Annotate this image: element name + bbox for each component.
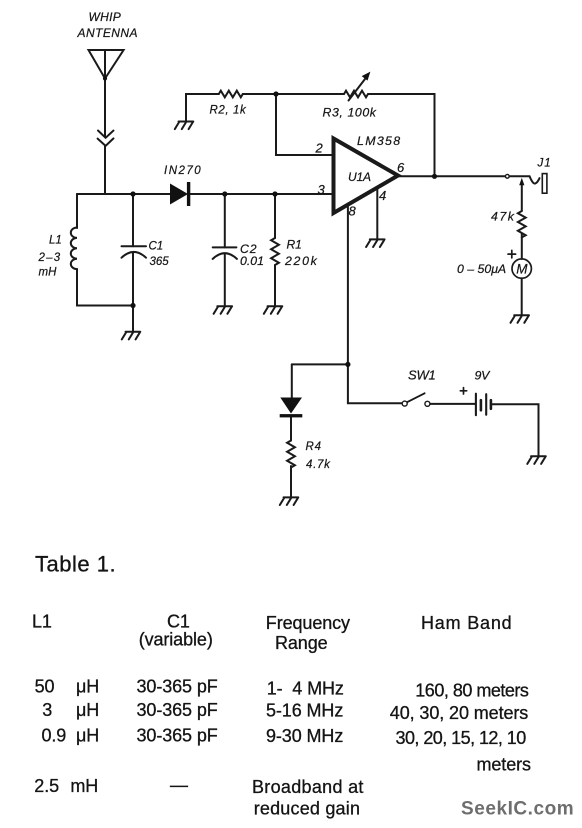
svg-text:ANTENNA: ANTENNA [77, 26, 139, 40]
svg-text:5-16 MHz: 5-16 MHz [266, 701, 343, 721]
svg-text:R3, 100k: R3, 100k [323, 106, 377, 120]
svg-text:R2, 1k: R2, 1k [210, 105, 247, 117]
svg-text:0.01: 0.01 [240, 254, 264, 268]
svg-text:meters: meters [477, 755, 532, 775]
svg-text:Table 1.: Table 1. [35, 552, 116, 577]
svg-text:50: 50 [35, 677, 55, 697]
svg-text:0 – 50μA: 0 – 50μA [457, 262, 506, 276]
svg-text:U1A: U1A [348, 170, 371, 184]
svg-text:47k: 47k [491, 210, 515, 224]
svg-text:6: 6 [397, 160, 405, 175]
svg-text:R4: R4 [306, 441, 322, 453]
svg-text:J1: J1 [537, 158, 552, 170]
svg-text:(variable): (variable) [139, 629, 213, 649]
svg-text:IN270: IN270 [164, 165, 202, 177]
svg-text:C1: C1 [149, 241, 164, 253]
svg-text:WHIP: WHIP [89, 10, 122, 24]
svg-text:2–3: 2–3 [38, 252, 62, 264]
svg-text:LM358: LM358 [357, 134, 401, 148]
svg-text:μH: μH [76, 726, 99, 746]
svg-text:3: 3 [42, 700, 52, 720]
svg-text:M: M [516, 262, 528, 277]
svg-text:SW1: SW1 [408, 368, 436, 383]
svg-text:8: 8 [349, 204, 357, 219]
svg-text:220k: 220k [284, 254, 318, 268]
svg-text:1- 4 MHz: 1- 4 MHz [267, 679, 344, 699]
svg-text:μH: μH [76, 700, 99, 720]
svg-text:L1: L1 [32, 612, 52, 632]
svg-text:4.7k: 4.7k [306, 459, 331, 471]
svg-text:2: 2 [315, 141, 324, 156]
svg-text:Range: Range [275, 633, 328, 653]
svg-text:L1: L1 [49, 235, 62, 247]
svg-text:mH: mH [70, 776, 98, 796]
svg-text:30, 20, 15, 12, 10: 30, 20, 15, 12, 10 [396, 728, 527, 748]
svg-text:R1: R1 [287, 238, 302, 252]
svg-text:40, 30, 20 meters: 40, 30, 20 meters [390, 703, 528, 723]
svg-text:160, 80 meters: 160, 80 meters [415, 681, 529, 701]
svg-text:30-365 pF: 30-365 pF [137, 677, 218, 697]
svg-text:30-365 pF: 30-365 pF [137, 700, 218, 720]
svg-text:Frequency: Frequency [266, 613, 350, 633]
svg-text:mH: mH [39, 267, 58, 279]
svg-text:30-365 pF: 30-365 pF [137, 726, 218, 746]
svg-text:μH: μH [76, 677, 99, 697]
svg-text:2.5: 2.5 [34, 776, 59, 796]
svg-text:Broadband at: Broadband at [252, 777, 364, 797]
svg-text:4: 4 [379, 188, 386, 203]
svg-text:Ham Band: Ham Band [421, 613, 512, 633]
svg-text:9V: 9V [475, 369, 492, 383]
svg-text:0.9: 0.9 [42, 726, 67, 746]
svg-text:3: 3 [318, 182, 326, 197]
svg-text:reduced gain: reduced gain [254, 799, 360, 819]
svg-text:9-30 MHz: 9-30 MHz [266, 726, 343, 746]
svg-text:SeekIC.com: SeekIC.com [461, 799, 574, 820]
svg-text:365: 365 [150, 256, 170, 268]
svg-text:—: — [170, 775, 188, 795]
